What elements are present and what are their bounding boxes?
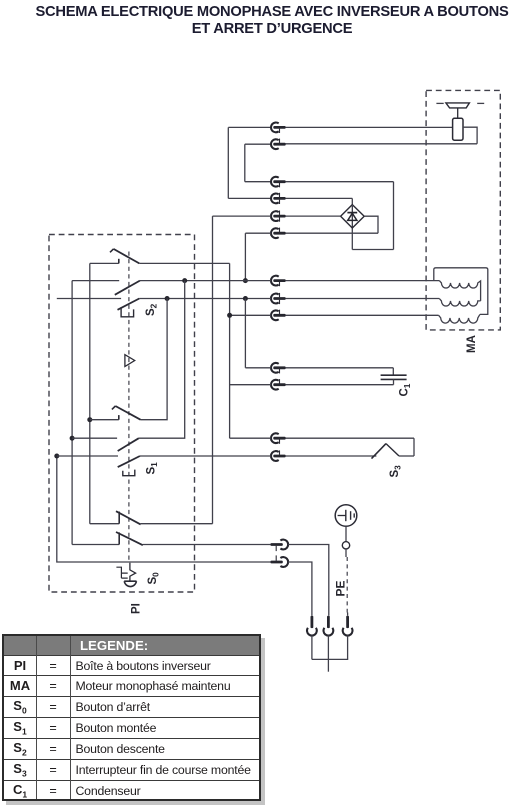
contact S0c2 fixed tick	[118, 532, 120, 544]
svg-text:S1: S1	[146, 462, 160, 475]
terminal point circle	[342, 542, 349, 549]
connector X1:2	[271, 139, 286, 149]
wire K6 left	[245, 232, 271, 234]
wire S2c1 left	[90, 262, 119, 264]
wire K7 right to motor	[285, 280, 439, 282]
connector plug N	[324, 616, 334, 636]
wire plug bus	[312, 658, 348, 660]
thermal switch stem	[457, 108, 459, 118]
wire K12 left	[230, 437, 272, 439]
earth symbol bar3	[353, 513, 355, 517]
connector X1:1	[271, 122, 286, 133]
wire K4 left	[228, 197, 271, 199]
contact S0c2 arm	[116, 532, 143, 545]
wire K4 right	[285, 197, 352, 199]
connector X3:2 (motor)	[271, 293, 286, 304]
motor outer link	[434, 268, 488, 315]
svg-text:PE: PE	[334, 580, 348, 596]
junction rail A / S1c1	[87, 417, 92, 422]
contact S1c3 arm	[118, 456, 140, 467]
connector plug L	[307, 616, 317, 636]
wire neutral rail bottom	[57, 456, 271, 562]
contact S2c1 arm hook	[110, 249, 114, 252]
rectifier bridge D1 diamond	[341, 205, 365, 228]
svg-text:S0: S0	[147, 572, 161, 585]
wire rectifier right lead	[364, 216, 378, 233]
wire K2 left	[245, 143, 271, 145]
wire S1c3 left	[57, 455, 118, 457]
wire S3 right vertical	[413, 438, 415, 456]
capacitor C1 top plate	[381, 374, 407, 376]
svg-text:S3: S3	[389, 465, 403, 478]
thermal switch body F1	[453, 118, 463, 140]
connector X2:2	[271, 193, 286, 204]
wire S2 contact1 right	[139, 262, 229, 264]
wire S0c2 left	[72, 544, 119, 546]
wire S0c2 right to X6:1	[143, 544, 271, 546]
wire K3 left	[245, 181, 271, 183]
wire K13 right	[285, 455, 376, 457]
wire plug PE lower	[347, 635, 349, 659]
rectifier D1 axis	[351, 206, 353, 227]
wire S2c3 left	[57, 298, 121, 300]
connector X4:2 (condensateur)	[271, 379, 286, 390]
button S1 head	[123, 470, 135, 476]
wire S0 contact1 right	[141, 523, 213, 525]
earth symbol bar1	[345, 510, 347, 521]
motor main winding row1	[439, 281, 480, 301]
wire plug N lower	[327, 635, 329, 659]
button S0 latch bracket	[116, 567, 127, 578]
svg-text:PI: PI	[131, 603, 143, 614]
connector X2:1	[271, 177, 286, 188]
wire K8 right to motor	[285, 298, 439, 300]
connector X3:3 (motor)	[271, 310, 286, 320]
wire plug L lower	[311, 635, 313, 659]
wire X6:1 to plug	[288, 545, 329, 616]
rectifier D1 cathode bar	[347, 212, 357, 214]
wire K2 right	[285, 143, 477, 145]
wire K12 right	[285, 437, 414, 439]
svg-text:MA: MA	[466, 335, 478, 353]
contact S0c1 fixed tick	[118, 512, 120, 524]
wire S3 to vertical	[399, 455, 414, 457]
contact S0c1 arm	[116, 511, 141, 524]
wire K11 right	[285, 384, 393, 386]
svg-text:C1: C1	[399, 383, 413, 396]
motor main winding row2	[439, 299, 480, 307]
switch S3 wedge	[386, 444, 399, 456]
wire K5 left	[213, 215, 272, 217]
wire S1c3 right to K13	[140, 455, 271, 457]
wire rail A (S2c1-S1c1-S0c1)	[89, 263, 91, 523]
wire S2 contact3 right / K8	[139, 298, 271, 300]
connector X5:1 (S3)	[271, 433, 286, 443]
wire thermal right terminal	[463, 127, 477, 144]
wire S0c1 left	[90, 523, 119, 525]
wire earth to terminal	[345, 526, 347, 541]
wire S2 contact2 right / K7	[140, 280, 271, 282]
wire mains stub	[327, 659, 329, 671]
wire loop K1-K4 vertical	[227, 127, 229, 198]
junction K8/K10	[243, 296, 248, 301]
wire K8 drop to K10	[244, 299, 246, 368]
capacitor C1 bottom plate	[381, 378, 407, 380]
wire S1c2 right	[139, 281, 185, 439]
junction rail C / S1c3	[54, 454, 59, 459]
earth symbol bar2	[350, 511, 352, 520]
wire S2c1 vertical to K9/K11/K12	[229, 263, 231, 438]
wire rectifier bottom lead	[351, 228, 353, 250]
wire K6 right	[285, 232, 378, 234]
wire K5 long vertical to S0	[212, 216, 214, 524]
wire right loop vertical	[393, 182, 395, 250]
wire K10 right	[285, 367, 393, 369]
wire C1 bottom lead	[393, 379, 395, 384]
contact S1c1 arm hook	[112, 406, 116, 409]
contact S2c2 arm	[115, 281, 140, 295]
connector X5:2 (S3)	[271, 450, 286, 461]
wire K9 right to motor	[285, 314, 438, 316]
wire K6 drop to K7 net	[244, 233, 246, 280]
wire K1 left	[228, 126, 271, 128]
thermal switch bimetal saucer	[446, 103, 470, 108]
wire terminal stub	[345, 549, 347, 557]
wire K1 right to thermal switch	[285, 126, 452, 128]
junction K6/K7	[243, 278, 248, 283]
contact S1c1 arm	[115, 406, 140, 420]
wire K3 right	[285, 181, 393, 183]
connector X4:1 (condensateur)	[271, 363, 286, 374]
connector X6:1 (alim)	[270, 540, 288, 551]
rectifier D1 diode triangle	[348, 213, 357, 220]
wire S1c2 left	[72, 437, 117, 439]
wire rail B (S2c2-S1c2-S0c2)	[71, 281, 73, 545]
wire C1 top lead	[392, 368, 394, 375]
wire S2c2 left	[72, 280, 119, 282]
thermal switch dashed mark right	[477, 102, 484, 104]
motor aux winding row3	[439, 314, 480, 323]
connector X2:4	[271, 228, 286, 238]
button S2 head	[121, 307, 134, 317]
mechanical link dashed	[128, 252, 130, 563]
connector plug PE	[343, 616, 353, 636]
wire X6:2 to plug	[288, 562, 312, 616]
junction rail B / S1c2	[70, 436, 75, 441]
wire K9 left	[230, 314, 272, 316]
connector X6:2 (alim)	[270, 555, 288, 567]
earth terminal circle	[335, 505, 357, 527]
junction rail S1c2	[182, 278, 187, 283]
wire S1c1 right	[141, 299, 168, 420]
enclosure PI (boite a boutons) dashed box	[49, 235, 195, 593]
wire PE stub to plug	[347, 613, 349, 616]
wire PE dashed	[346, 557, 348, 613]
wire loop K2-K3 vertical	[244, 144, 246, 182]
switch S3 arm	[372, 444, 387, 459]
button S0 mushroom head	[124, 581, 136, 586]
wire K5 right to rectifier	[285, 215, 340, 217]
thermal switch dashed mark left	[436, 102, 443, 104]
interlock triangle	[125, 355, 135, 367]
wire rectifier top lead	[351, 198, 353, 204]
contact S2c3 arm	[118, 299, 140, 310]
junction rail S1c1	[165, 296, 170, 301]
junction K9	[227, 313, 232, 318]
contact S1c1 fixed tick	[118, 415, 120, 420]
button S0 link	[130, 563, 136, 581]
connector X2:3	[271, 211, 286, 222]
wire K10 left	[245, 367, 271, 369]
svg-text:S2: S2	[145, 303, 159, 316]
contact S1c2 arm	[118, 438, 139, 451]
earth symbol lead	[338, 515, 346, 517]
connector X3:1 (motor)	[271, 276, 286, 287]
wire K11 left	[230, 384, 272, 386]
enclosure MA (moteur) dashed box	[426, 90, 500, 330]
wire bottom of loop	[352, 249, 393, 251]
contact S2c1 arm	[114, 249, 140, 264]
contact S2c1 fixed tick	[118, 259, 120, 264]
wire S1c1 left	[90, 419, 119, 421]
